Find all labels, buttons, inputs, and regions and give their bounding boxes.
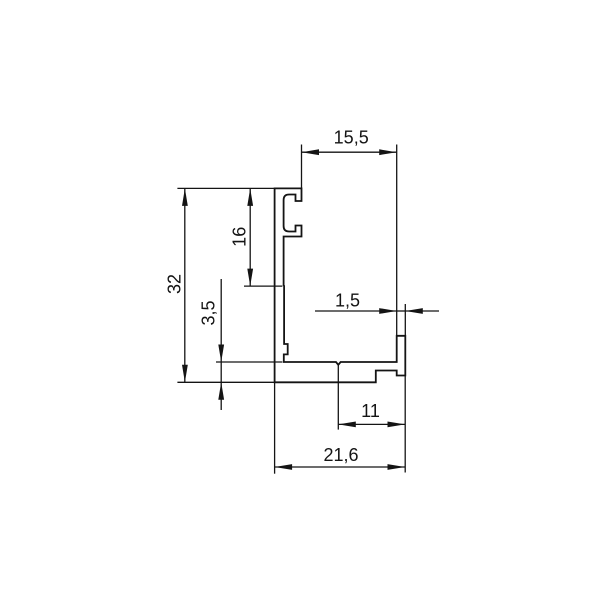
ext line left (up from profile top corner) bbox=[301, 145, 303, 189]
arrow 32 bottom bbox=[182, 365, 188, 383]
dimension 1,5 bbox=[315, 304, 439, 336]
dim line bbox=[184, 188, 186, 382]
dim line bbox=[275, 466, 405, 468]
dim line bbox=[338, 423, 405, 425]
arrow 3,5 up (tip at flange bottom) bbox=[218, 382, 224, 400]
arrow 11 right bbox=[388, 422, 406, 428]
arrow 11 left bbox=[338, 422, 356, 428]
dimension 16 bbox=[244, 188, 282, 286]
arrow 16 top bbox=[247, 188, 253, 206]
dimension 21,6 bbox=[275, 382, 405, 473]
aluminium profile cross-section outline bbox=[275, 188, 406, 382]
svg-text:1,5: 1,5 bbox=[335, 291, 360, 311]
ext line right (down from upstand, shared with 21,6) bbox=[404, 376, 406, 473]
arrow 15,5 left bbox=[302, 149, 320, 155]
ext line bottom bbox=[177, 381, 274, 383]
arrow 3,5 down (tip at flange top) bbox=[218, 345, 224, 363]
dim line bbox=[302, 151, 397, 153]
dim line upper tail bbox=[220, 279, 222, 362]
dimension 32 bbox=[177, 188, 274, 382]
ext line top (flange top extended left) bbox=[216, 361, 282, 363]
svg-text:11: 11 bbox=[361, 401, 380, 421]
ext line left (down from V-notch) bbox=[337, 365, 339, 430]
svg-text:16: 16 bbox=[230, 227, 250, 247]
dim line lower tail bbox=[220, 382, 222, 410]
svg-text:3,5: 3,5 bbox=[198, 300, 218, 325]
svg-text:32: 32 bbox=[165, 274, 185, 294]
dimension 15,5 bbox=[302, 145, 397, 336]
svg-text:15,5: 15,5 bbox=[334, 127, 369, 147]
arrow 21,6 right bbox=[388, 464, 406, 470]
arrow 1,5 pointing right (tip at upstand left face) bbox=[379, 308, 397, 314]
arrow 21,6 left bbox=[275, 464, 293, 470]
gap segment bbox=[397, 310, 406, 312]
ext line top bbox=[177, 187, 274, 189]
dimension 11 bbox=[338, 365, 405, 473]
dim line bbox=[249, 188, 251, 286]
ext line bottom bbox=[244, 285, 282, 287]
dim line through gap bbox=[220, 362, 222, 382]
arrow 16 bottom bbox=[247, 269, 253, 287]
left tail bbox=[315, 310, 397, 312]
arrow 1,5 pointing left (tip at upstand right face) bbox=[405, 308, 423, 314]
right tail bbox=[405, 310, 439, 312]
arrow 15,5 right bbox=[379, 149, 397, 155]
arrow 32 top bbox=[182, 188, 188, 206]
ext line right (down to upstand top) bbox=[396, 145, 398, 336]
ext line right (down to upstand) bbox=[404, 304, 406, 336]
svg-text:21,6: 21,6 bbox=[323, 445, 358, 465]
ext line left (down from profile bottom-left corner) bbox=[274, 382, 276, 473]
dimension 3,5 bbox=[216, 279, 282, 410]
